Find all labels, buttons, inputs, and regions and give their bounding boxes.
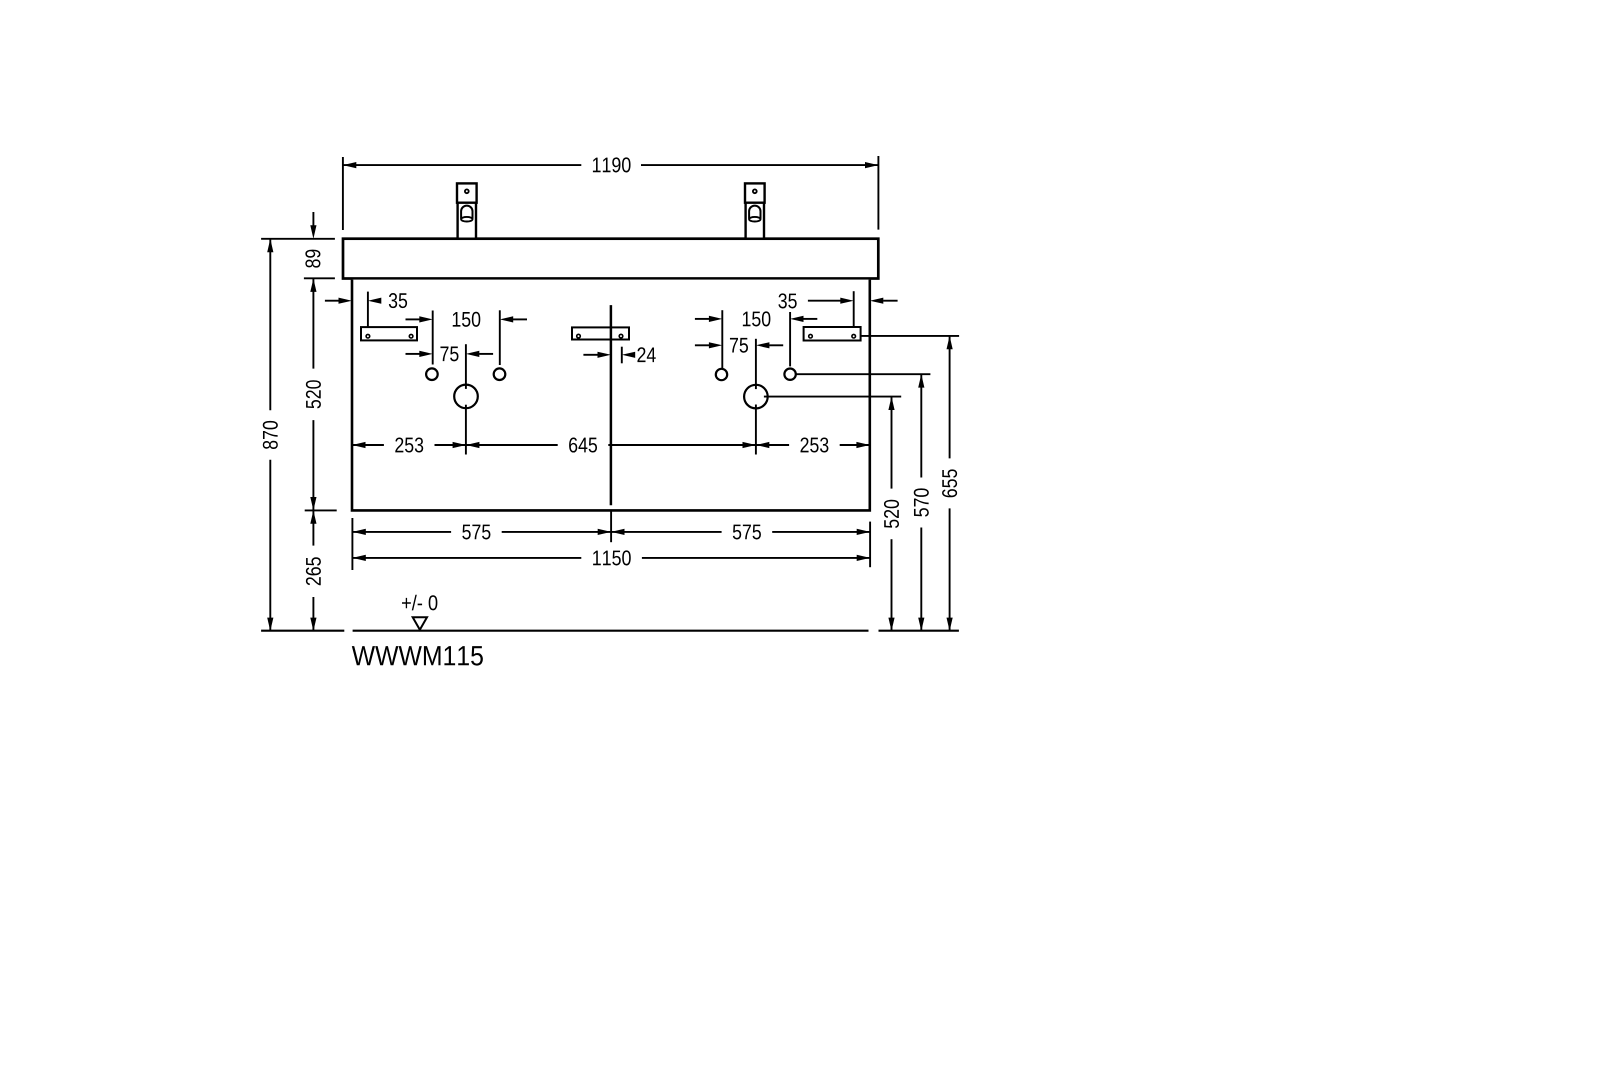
datum triangle <box>413 617 427 629</box>
dim 575 left arrows <box>352 529 611 535</box>
dim 75 left label <box>440 346 458 361</box>
left faucet hole right <box>494 368 506 380</box>
middle mounting rail <box>572 327 629 339</box>
right drain hole <box>744 385 768 409</box>
dim 645 line <box>466 444 756 446</box>
dim 35 left arrows <box>325 298 381 304</box>
dim 265 label <box>306 557 321 585</box>
dim 253 left arrows <box>352 442 466 448</box>
left faucet <box>457 183 477 238</box>
dim 655 line and arrows <box>947 336 953 631</box>
dim 253 right label <box>800 437 828 452</box>
dim 520 left label <box>306 380 321 408</box>
dim 575 left line <box>352 531 611 533</box>
dim 35 right arrows <box>808 298 898 304</box>
right faucet <box>745 183 765 238</box>
dim 520 right label <box>884 500 899 528</box>
dim 24 extension line <box>621 347 623 364</box>
dim 575 right line <box>611 531 870 533</box>
dim 645 label <box>569 437 597 452</box>
floor line <box>261 630 959 632</box>
cabinet outline <box>352 280 870 511</box>
left basin centerline <box>465 344 467 454</box>
dim 35 left extension line <box>367 292 369 328</box>
dim 75 right arrows <box>695 342 783 348</box>
dim 150 left arrows <box>406 316 528 322</box>
dim 150 left label <box>453 312 481 327</box>
dim 24 arrows <box>583 352 635 358</box>
dim 150 left extension lines <box>433 310 500 365</box>
dim 253 left label <box>395 437 423 452</box>
dim 520 left line and arrows <box>305 279 337 511</box>
dim 1150 line <box>352 557 870 559</box>
dim 89 reference ticks <box>261 239 335 278</box>
dim 570 label <box>914 488 929 516</box>
model code WWWM115 <box>352 646 483 665</box>
cabinet center divider <box>610 305 613 505</box>
left drain hole <box>454 385 478 409</box>
dim 265 line and arrows <box>310 510 316 631</box>
dim 24 label <box>637 347 655 362</box>
dim 870 line and arrows <box>267 239 273 631</box>
dim 253 left line <box>352 444 466 446</box>
reference line for 520 right <box>764 396 901 398</box>
right faucet hole left <box>716 369 727 380</box>
right faucet hole right <box>784 369 795 380</box>
dim 1150 arrows <box>352 555 870 561</box>
dim 150 right label <box>743 311 771 326</box>
dim 575 left label <box>462 525 490 540</box>
left faucet hole left <box>426 368 438 380</box>
dim 575 right arrows <box>611 529 870 535</box>
dim 655 label <box>942 469 957 497</box>
dim 570 line and arrows <box>918 374 924 631</box>
dim 75 right label <box>730 338 748 353</box>
dim 870 label <box>263 421 278 449</box>
reference line for 570 <box>796 373 931 375</box>
dim 35 right extension line <box>853 291 855 327</box>
dim 35 right label <box>778 293 796 308</box>
reference line for 655 <box>861 335 960 337</box>
dim 520 right line and arrows <box>888 397 894 631</box>
right basin centerline <box>755 339 757 455</box>
washbasin top outline <box>343 239 878 279</box>
dim 1150 label <box>593 550 631 565</box>
dimension 1190 extension lines <box>343 156 879 230</box>
dim 150 right arrows <box>695 316 817 322</box>
right mounting rail <box>804 327 861 341</box>
dim 253 right arrows <box>756 442 870 448</box>
dim 75 left arrows <box>406 351 494 357</box>
dim 575 right label <box>733 525 761 540</box>
bottom extension lines <box>352 512 870 571</box>
dim 89 label <box>305 250 320 268</box>
left mounting rail <box>361 327 417 340</box>
datum label <box>402 595 437 611</box>
dim 645 arrows <box>466 442 756 448</box>
dim 35 left label <box>389 293 407 308</box>
dim 150 right extension lines <box>722 310 790 368</box>
dim 253 right line <box>756 444 870 446</box>
dim 89 arrows <box>310 212 316 292</box>
dimension 1190 label <box>593 157 631 172</box>
dimension 1190 line and arrows <box>343 162 879 168</box>
